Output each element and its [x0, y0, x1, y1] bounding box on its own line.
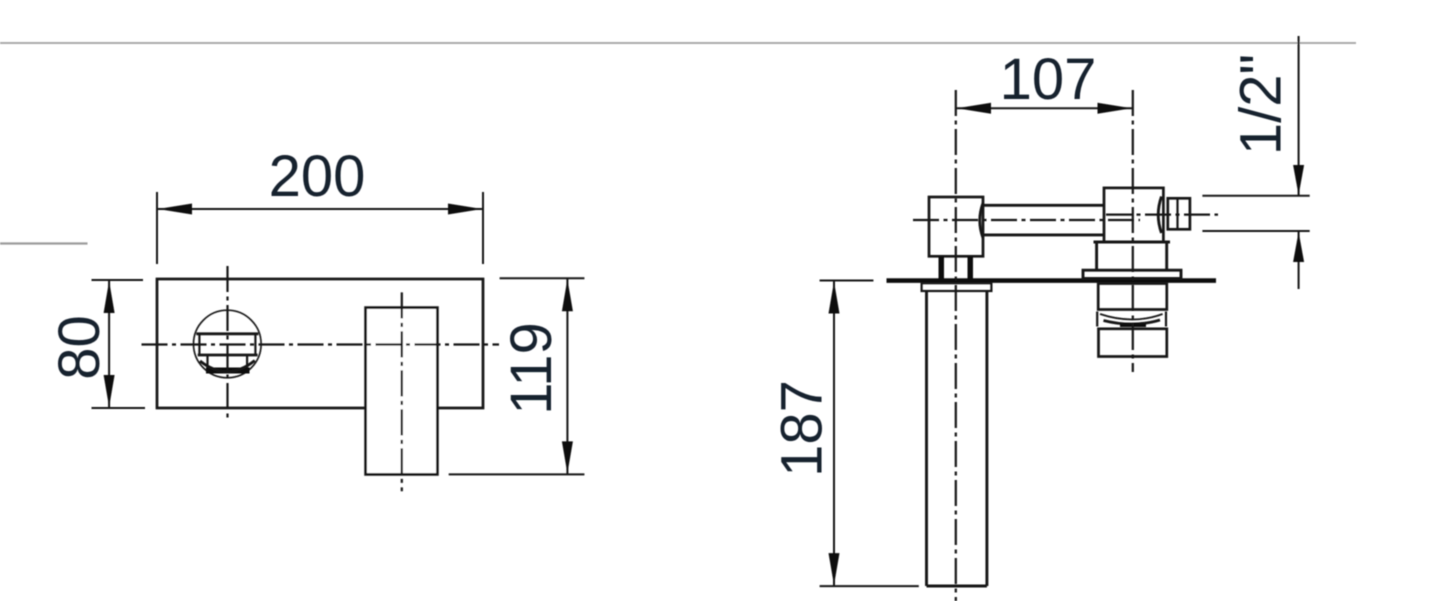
dim 119 extension lines [500, 277, 585, 279]
valve top block [1104, 188, 1163, 242]
handle (covers plate edge) [366, 308, 438, 475]
centerline vertical through handle [401, 292, 403, 491]
connector knob [1168, 198, 1190, 229]
union collar arcs [1100, 314, 1163, 320]
dim 200 line [157, 208, 483, 210]
valve nut section [1094, 241, 1171, 244]
spout drop tube [925, 291, 928, 586]
spout arm top/bottom [983, 204, 1104, 207]
dim 119 line [566, 278, 568, 474]
dim 187 arrows [829, 282, 840, 314]
dim 1/2" extension lines [1202, 195, 1309, 197]
dim 187 extension lines [820, 280, 874, 282]
centerline valve (vertical) [1132, 90, 1134, 372]
centerline arm (horizontal) [913, 219, 1140, 221]
dim 80 arrows [104, 281, 115, 313]
svg-text:80: 80 [47, 315, 112, 380]
dim 80 line [108, 280, 110, 408]
dim 107 line [956, 107, 1132, 109]
svg-text:187: 187 [769, 380, 834, 477]
aerator sides [198, 334, 200, 355]
wall plate outline [157, 279, 483, 408]
supply hex nut [1098, 284, 1167, 310]
top rule (gray) [0, 42, 1356, 44]
svg-text:1/2": 1/2" [1228, 54, 1293, 155]
dim 1/2" vertical line upper [1298, 36, 1300, 196]
dim 200 arrows [158, 204, 192, 215]
dim 80 extension lines [92, 279, 144, 281]
centerline knob (horizontal) [1106, 214, 1218, 216]
svg-text:107: 107 [1000, 47, 1097, 112]
dim 1/2" arrows [1293, 165, 1304, 195]
valve flange on plate [1083, 270, 1181, 278]
knob inner edge [1176, 198, 1178, 229]
dim 187 line [833, 281, 835, 587]
dim 200 extension lines [156, 192, 158, 264]
spout outlet circle [194, 310, 262, 378]
union collar sides [1096, 312, 1098, 327]
thick bottom arc of circle [200, 361, 255, 372]
elbow weld arc [980, 203, 983, 238]
centerline tube (vertical) [955, 90, 957, 601]
svg-text:200: 200 [269, 144, 366, 209]
aerator lower chord [198, 354, 258, 357]
aerator detail upper chord [196, 332, 258, 335]
aerator inner cup sides [206, 355, 208, 370]
centerline horizontal through plate [142, 343, 500, 345]
spout escutcheon flange [922, 283, 992, 291]
centerline vertical through circle [226, 266, 228, 422]
left rule (gray) [0, 242, 88, 244]
aerator bottom bar [206, 368, 250, 374]
svg-text:119: 119 [499, 322, 564, 414]
supply lower block [1099, 329, 1167, 357]
dim 119 arrows [562, 279, 573, 311]
valve boss arc [1158, 197, 1161, 234]
mounting legs [939, 256, 945, 278]
dim 1/2" vertical line lower [1298, 231, 1300, 289]
spout elbow block [929, 197, 983, 256]
dim 107 arrows [957, 103, 991, 114]
wall plate (edge-on, thick) [887, 278, 1217, 283]
